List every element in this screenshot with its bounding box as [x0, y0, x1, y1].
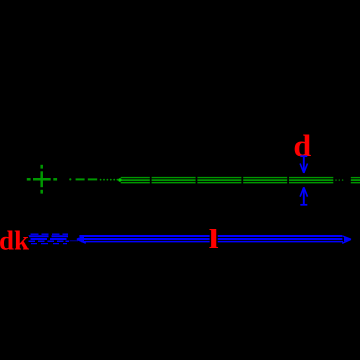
beam axis line — [122, 179, 334, 181]
right arrowhead — [342, 236, 351, 243]
faint leader to left arrowhead — [70, 240, 79, 242]
bright waist dot — [118, 178, 121, 181]
dimension arrow down (above beam) — [300, 156, 307, 173]
dimension arrow up (below beam) — [300, 187, 307, 205]
optical axis cross mark — [27, 165, 57, 194]
svg-text:l: l — [209, 223, 219, 254]
axis dash-dot segment — [69, 178, 121, 181]
beam bottom edge — [121, 182, 334, 184]
cross horizontal main — [33, 178, 51, 181]
blue beam bundle: three lines — [79, 236, 343, 242]
blue dashed bundle left of arrow — [29, 234, 70, 243]
cross vertical main — [40, 171, 43, 187]
axis dot — [69, 178, 71, 180]
cross vertical bottom dash — [40, 190, 43, 194]
svg-text:dk: dk — [0, 225, 29, 255]
cross vertical top dash — [40, 165, 43, 169]
cross horizontal right dash — [53, 178, 57, 181]
svg-text:d: d — [293, 129, 311, 163]
axis dots — [100, 179, 102, 181]
axis dash — [88, 178, 97, 180]
cross horizontal left dash — [27, 178, 31, 181]
beam top edge — [121, 177, 334, 179]
left arrowhead — [77, 236, 86, 243]
axis dots inside beam break — [335, 179, 343, 180]
green beam: three parallel lines with dash gaps — [121, 178, 360, 183]
axis dash — [76, 178, 85, 180]
